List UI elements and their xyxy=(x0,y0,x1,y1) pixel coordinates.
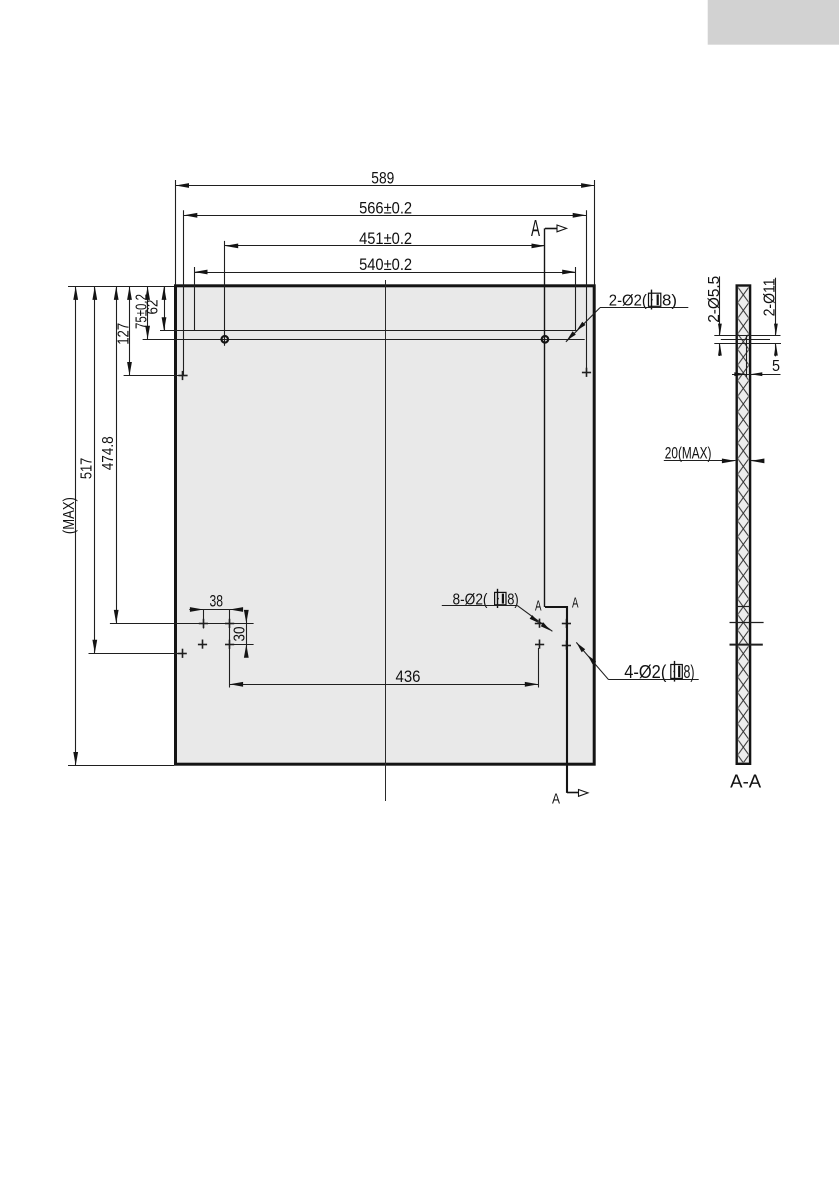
svg-text:A: A xyxy=(572,596,579,612)
svg-text:A: A xyxy=(535,599,542,615)
svg-text:38: 38 xyxy=(210,592,224,610)
svg-text:62: 62 xyxy=(145,300,162,315)
svg-text:A: A xyxy=(531,215,540,241)
svg-text:474.8: 474.8 xyxy=(100,436,117,470)
svg-text:540±0.2: 540±0.2 xyxy=(359,256,412,274)
svg-text:2-Ø11: 2-Ø11 xyxy=(762,278,779,316)
svg-text:2-Ø5.5: 2-Ø5.5 xyxy=(706,276,723,323)
svg-text:A-A: A-A xyxy=(730,771,762,792)
svg-text:127: 127 xyxy=(115,323,132,345)
svg-text:(MAX): (MAX) xyxy=(61,497,78,534)
svg-text:589: 589 xyxy=(371,170,394,188)
svg-text:5: 5 xyxy=(772,358,780,375)
svg-text:566±0.2: 566±0.2 xyxy=(359,199,412,217)
svg-text:436: 436 xyxy=(396,668,421,686)
svg-text:451±0.2: 451±0.2 xyxy=(359,230,412,248)
svg-text:20(MAX): 20(MAX) xyxy=(665,444,712,462)
svg-text:517: 517 xyxy=(79,458,96,480)
svg-text:A: A xyxy=(552,792,560,808)
svg-text:30: 30 xyxy=(232,626,249,641)
